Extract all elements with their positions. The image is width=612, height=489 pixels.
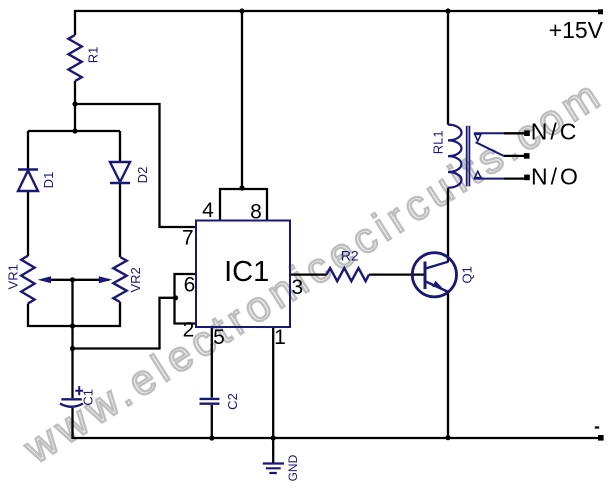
svg-text:IC1: IC1 [224,256,269,288]
svg-text:C1: C1 [80,389,95,406]
svg-text:N/C: N/C [531,119,580,145]
svg-text:+15V: +15V [549,17,604,43]
svg-text:1: 1 [274,326,286,349]
svg-text:8: 8 [250,201,262,224]
svg-text:GND: GND [286,454,300,481]
svg-text:2: 2 [183,318,195,341]
svg-text:Q1: Q1 [459,266,474,283]
svg-text:VR1: VR1 [6,264,21,289]
svg-text:RL1: RL1 [431,130,446,154]
svg-text:3: 3 [292,276,304,299]
svg-text:R2: R2 [341,248,359,264]
svg-text:6: 6 [184,274,196,297]
svg-text:N/O: N/O [531,164,581,190]
svg-text:R1: R1 [86,47,101,64]
svg-text:VR2: VR2 [128,267,143,292]
svg-text:4: 4 [202,199,214,222]
svg-text:7: 7 [182,226,194,249]
svg-text:D2: D2 [135,167,150,184]
svg-text:5: 5 [213,326,225,349]
svg-text:C2: C2 [225,393,240,410]
svg-text:D1: D1 [41,172,56,189]
